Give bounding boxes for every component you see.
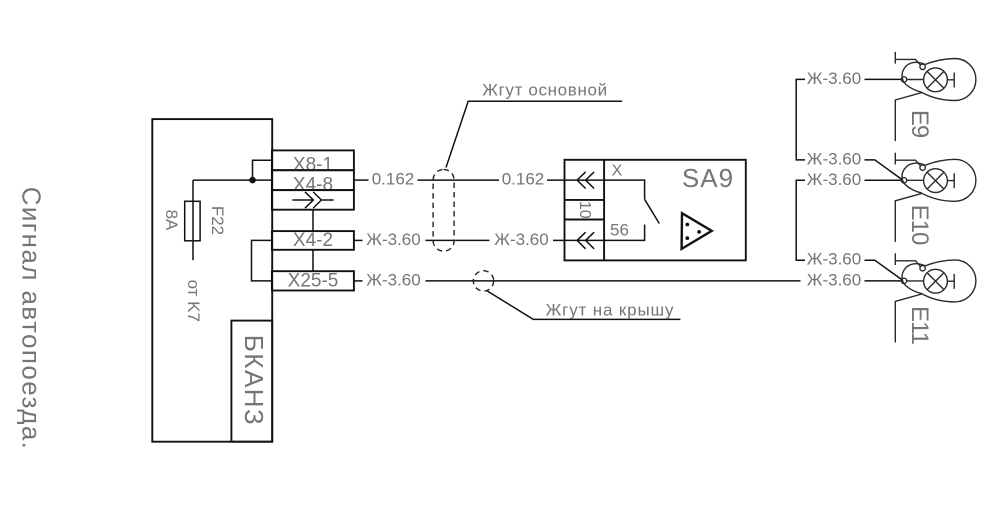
wire X4-2 to X25-5 xyxy=(312,250,314,271)
chevrons pin 56 row xyxy=(577,232,594,249)
svg-text:X25-5: X25-5 xyxy=(288,270,339,291)
wire X4-8 row mid xyxy=(418,179,500,181)
svg-text:Ж-3.60: Ж-3.60 xyxy=(807,69,861,88)
svg-text:X4-2: X4-2 xyxy=(293,230,333,251)
svg-text:Сигнал автопоезда.: Сигнал автопоезда. xyxy=(17,187,47,451)
svg-text:X8-1: X8-1 xyxy=(293,155,333,176)
svg-text:Ж-3.60: Ж-3.60 xyxy=(366,230,420,249)
svg-text:SA9: SA9 xyxy=(682,163,734,193)
svg-text:E9: E9 xyxy=(906,110,933,138)
svg-text:E11: E11 xyxy=(906,306,933,345)
wire fuse vertical xyxy=(192,180,194,260)
svg-text:Ж-3.60: Ж-3.60 xyxy=(366,270,420,289)
svg-text:Ж-3.60: Ж-3.60 xyxy=(807,250,861,269)
fuse F22 xyxy=(185,201,200,241)
svg-text:X: X xyxy=(612,163,623,180)
svg-text:Жгут на крышу: Жгут на крышу xyxy=(546,300,675,319)
wire hook to X8-1 xyxy=(253,160,273,180)
wire X25-5 long xyxy=(426,280,801,282)
wire E9 xyxy=(865,78,902,80)
wire fuse to X4-8 xyxy=(193,179,272,181)
svg-text:от K7: от K7 xyxy=(184,280,203,322)
leader Жгут на крышу xyxy=(487,291,681,320)
svg-text:БКАНЗ: БКАНЗ xyxy=(239,335,269,427)
bracket right upper xyxy=(796,79,805,159)
wire E11 upper slant xyxy=(865,260,902,279)
chevrons pin X row xyxy=(577,172,594,189)
switch contact X lead xyxy=(604,180,645,199)
node junction dot xyxy=(249,177,256,184)
arrow symbol xyxy=(292,192,333,208)
switch blade xyxy=(645,199,660,223)
wire X4-8 row to SA9 xyxy=(547,179,604,181)
connector pin X25-5 xyxy=(272,271,354,290)
svg-text:10: 10 xyxy=(576,201,593,219)
svg-text:0.162: 0.162 xyxy=(502,170,545,189)
wire E10 lower xyxy=(865,179,901,181)
lamp E10 xyxy=(895,153,976,242)
svg-text:F22: F22 xyxy=(208,206,227,235)
sub-box БКАНЗ label xyxy=(231,321,272,442)
wire X4-2 row to SA9 xyxy=(553,239,604,241)
bracket right lower xyxy=(796,180,805,260)
switch contact 56 lead xyxy=(604,225,645,241)
svg-text:Жгут основной: Жгут основной xyxy=(482,80,608,99)
lamp E9 xyxy=(895,52,976,141)
wire bracket X4-2 to X25-5 xyxy=(252,240,273,281)
wire X4-8 row stub xyxy=(354,179,369,181)
wire arrow box to X4-2 xyxy=(312,210,314,231)
svg-text:Ж-3.60: Ж-3.60 xyxy=(807,270,861,289)
connector pin X4-2 xyxy=(272,231,354,250)
svg-text:8A: 8A xyxy=(162,210,181,231)
wire X4-2 row mid xyxy=(426,239,490,241)
svg-text:E10: E10 xyxy=(906,205,933,245)
switch SA9 box xyxy=(565,160,746,261)
connector pin X4-8 xyxy=(272,170,354,190)
wire E10 upper slant xyxy=(865,160,902,179)
lamp E11 xyxy=(895,253,976,342)
svg-text:0.162: 0.162 xyxy=(372,170,415,189)
triangle dots xyxy=(685,223,689,227)
svg-text:Ж-3.60: Ж-3.60 xyxy=(807,149,861,168)
harness circle dashed xyxy=(473,271,493,291)
connector pin X8-1 xyxy=(272,150,354,170)
wire X4-2 row stub xyxy=(354,239,363,241)
unit box БКАНЗ outline xyxy=(152,119,272,442)
switch SA9 row lines xyxy=(565,200,605,220)
leader Жгут основной xyxy=(446,101,622,167)
svg-text:Ж-3.60: Ж-3.60 xyxy=(494,230,548,249)
wire X25-5 row stub xyxy=(354,280,363,282)
wire E11 lower xyxy=(865,280,902,282)
harness capsule dashed xyxy=(433,169,454,251)
svg-text:56: 56 xyxy=(610,220,629,239)
arrow symbol box xyxy=(272,190,354,210)
svg-text:Ж-3.60: Ж-3.60 xyxy=(807,170,861,189)
triangle indicator xyxy=(682,213,712,249)
switch SA9 divider xyxy=(603,160,605,261)
